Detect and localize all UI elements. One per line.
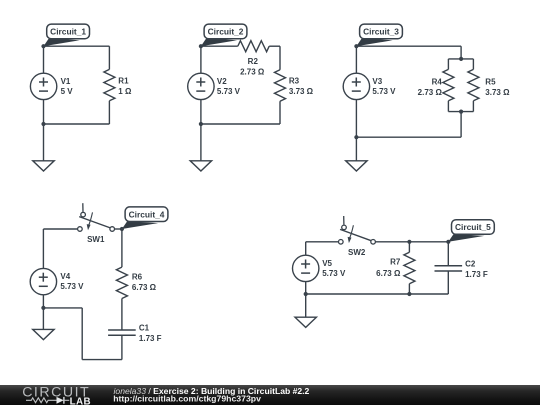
- wire R4 lower stub: [447, 101, 449, 112]
- switch SW2 actuation arrow: [350, 225, 354, 238]
- wire V5 top lead: [305, 242, 307, 255]
- wire V5 bottom lead: [305, 282, 307, 294]
- resistor R3: [275, 70, 286, 101]
- wire right branch lower: [108, 101, 110, 124]
- svg-text:5 V: 5 V: [61, 87, 74, 96]
- ground circuit 3: [346, 161, 367, 171]
- wire R5 lower stub: [472, 101, 474, 112]
- node C2 top junction: [446, 240, 450, 244]
- wire bottom rail circuit 2: [201, 123, 280, 125]
- resistor R6: [116, 267, 127, 298]
- svg-text:6.73 Ω: 6.73 Ω: [376, 269, 401, 278]
- wire V2 top lead: [200, 46, 202, 73]
- svg-text:Circuit_4: Circuit_4: [129, 209, 165, 219]
- wire right branch upper: [108, 46, 110, 69]
- node bottom left junction c2: [199, 122, 203, 126]
- wire V1 bottom lead: [43, 100, 45, 124]
- svg-text:3.73 Ω: 3.73 Ω: [289, 87, 314, 96]
- node top left junction c2: [199, 44, 203, 48]
- svg-text:6.73 Ω: 6.73 Ω: [132, 283, 157, 292]
- ground circuit 4: [33, 329, 54, 339]
- svg-text:Circuit_5: Circuit_5: [455, 222, 491, 232]
- ground circuit 2: [190, 161, 211, 171]
- switch SW2 upper contact: [342, 225, 347, 230]
- svg-text:1.73 F: 1.73 F: [139, 334, 162, 343]
- node top left junction c3: [354, 44, 358, 48]
- node R7 top junction: [407, 240, 411, 244]
- wire parallel bottom bar: [448, 111, 473, 113]
- wire V4 top lead: [42, 229, 44, 268]
- wire top rail right segment: [269, 45, 280, 47]
- switch SW1 left terminal: [78, 227, 83, 232]
- capacitor C2: [435, 265, 463, 267]
- svg-text:V5: V5: [322, 259, 332, 268]
- svg-text:C1: C1: [139, 324, 150, 333]
- svg-text:R5: R5: [485, 77, 496, 86]
- wire top rail to switch c5: [306, 241, 339, 243]
- node after SW1: [120, 227, 124, 231]
- svg-text:R1: R1: [118, 77, 129, 86]
- wire V3 top lead: [355, 46, 357, 73]
- wire R4 upper stub: [447, 59, 449, 70]
- svg-text:SW1: SW1: [87, 235, 105, 244]
- node parallel top junction: [459, 57, 463, 61]
- wire switch to R7 junction: [375, 241, 448, 243]
- wire V4 bottom lead: [42, 295, 44, 308]
- node bottom left junction: [41, 122, 45, 126]
- logo resistor-diode motif: [26, 397, 57, 402]
- wire to ground circuit 4: [42, 308, 44, 330]
- svg-text:R3: R3: [289, 77, 300, 86]
- svg-text:V1: V1: [61, 77, 71, 86]
- wire bottom rail circuit 1: [44, 123, 110, 125]
- voltage source V5: [293, 255, 319, 281]
- switch SW2 right terminal: [371, 240, 376, 245]
- voltage source V2: [188, 73, 214, 99]
- node Circuit_3 callout: [356, 38, 392, 46]
- capacitor C1: [108, 329, 136, 331]
- logo diode: [57, 396, 64, 403]
- wire top rail to switch: [43, 228, 77, 230]
- node V4 bottom junction: [41, 306, 45, 310]
- svg-text:R4: R4: [432, 77, 443, 86]
- node Circuit_1 callout: [44, 38, 80, 46]
- node Circuit_4 callout: [122, 221, 158, 229]
- svg-text:3.73 Ω: 3.73 Ω: [485, 88, 510, 97]
- switch SW1 blade: [79, 217, 110, 228]
- ground circuit 1: [33, 161, 54, 171]
- svg-text:R6: R6: [132, 273, 143, 282]
- voltage source V1: [30, 73, 56, 99]
- wire bottom return horizontal: [82, 359, 122, 361]
- wire bottom rail circuit 3: [356, 136, 461, 138]
- wire V1 top lead: [43, 46, 45, 73]
- switch SW2 blade: [340, 229, 371, 240]
- wire bottom return vertical: [81, 308, 83, 360]
- footer bar: [0, 385, 540, 405]
- svg-text:2.73 Ω: 2.73 Ω: [418, 88, 443, 97]
- svg-text:Circuit_3: Circuit_3: [363, 27, 399, 37]
- wire V3 bottom lead: [355, 100, 357, 138]
- wire R6 to C1: [121, 299, 123, 331]
- wire down from parallel bank: [460, 112, 462, 138]
- wire R7 lower stub: [408, 284, 410, 294]
- wire C1 down: [121, 335, 123, 359]
- node R7 bottom junction: [407, 292, 411, 296]
- wire V2 bottom lead: [200, 100, 202, 124]
- svg-text:Circuit_1: Circuit_1: [50, 27, 86, 37]
- svg-text:LAB: LAB: [70, 396, 91, 405]
- wire C2 upper lead: [447, 242, 449, 266]
- wire to ground circuit 5: [305, 294, 307, 317]
- svg-text:C2: C2: [465, 259, 476, 268]
- wire parallel top bar: [448, 58, 473, 60]
- svg-text:V2: V2: [217, 77, 227, 86]
- svg-text:R7: R7: [390, 258, 401, 267]
- resistor R2: [238, 41, 269, 52]
- svg-text:2.73 Ω: 2.73 Ω: [240, 67, 265, 76]
- wire to ground circuit 1: [43, 124, 45, 161]
- svg-text:1.73 F: 1.73 F: [465, 270, 488, 279]
- wire down to parallel top junction: [460, 46, 462, 59]
- resistor R5: [468, 69, 479, 100]
- switch SW2 left terminal: [339, 240, 344, 245]
- svg-text:5.73 V: 5.73 V: [60, 282, 84, 291]
- svg-text:SW2: SW2: [348, 248, 366, 257]
- node Circuit_5 callout: [448, 234, 484, 242]
- wire R5 upper stub: [472, 59, 474, 70]
- resistor R4: [443, 69, 454, 100]
- resistor R7: [404, 252, 415, 283]
- svg-text:V4: V4: [60, 272, 70, 281]
- svg-text:5.73 V: 5.73 V: [217, 87, 241, 96]
- wire top rail circuit 3: [356, 45, 461, 47]
- wire switch to node: [114, 228, 122, 230]
- node bottom left junction c3: [354, 135, 358, 139]
- svg-text:5.73 V: 5.73 V: [322, 269, 346, 278]
- node parallel bottom junction: [459, 110, 463, 114]
- svg-text:5.73 V: 5.73 V: [372, 87, 396, 96]
- voltage source V4: [30, 268, 56, 294]
- node top left junction: [41, 44, 45, 48]
- wire top rail circuit 1: [44, 45, 110, 47]
- wire top rail left segment: [201, 45, 238, 47]
- wire C2 lower lead: [447, 271, 449, 294]
- resistor R1: [104, 69, 115, 100]
- svg-text:http://circuitlab.com/ctkg79hc: http://circuitlab.com/ctkg79hc373pv: [113, 393, 261, 403]
- node V5 bottom junction: [304, 292, 308, 296]
- svg-text:1 Ω: 1 Ω: [118, 87, 132, 96]
- switch SW1 actuation arrow: [89, 212, 93, 225]
- voltage source V3: [343, 73, 369, 99]
- wire node down to R6: [121, 229, 123, 267]
- wire R7 upper stub: [408, 242, 410, 253]
- svg-text:Circuit_2: Circuit_2: [208, 27, 244, 37]
- node Circuit_2 callout: [201, 38, 237, 46]
- wire right branch lower: [279, 101, 281, 124]
- svg-text:V3: V3: [372, 77, 382, 86]
- wire bottom rail circuit 5: [306, 293, 449, 295]
- switch SW1 upper contact: [81, 212, 86, 217]
- switch SW2 upper-throw stub: [343, 216, 345, 225]
- wire to ground circuit 2: [200, 124, 202, 161]
- svg-text:R2: R2: [248, 57, 259, 66]
- ground circuit 5: [295, 317, 316, 327]
- wire to ground circuit 3: [355, 137, 357, 161]
- switch SW1 upper-throw stub: [82, 203, 84, 212]
- wire right branch upper: [279, 46, 281, 70]
- wire return to V4 node: [43, 307, 82, 309]
- switch SW1 right terminal: [110, 227, 115, 232]
